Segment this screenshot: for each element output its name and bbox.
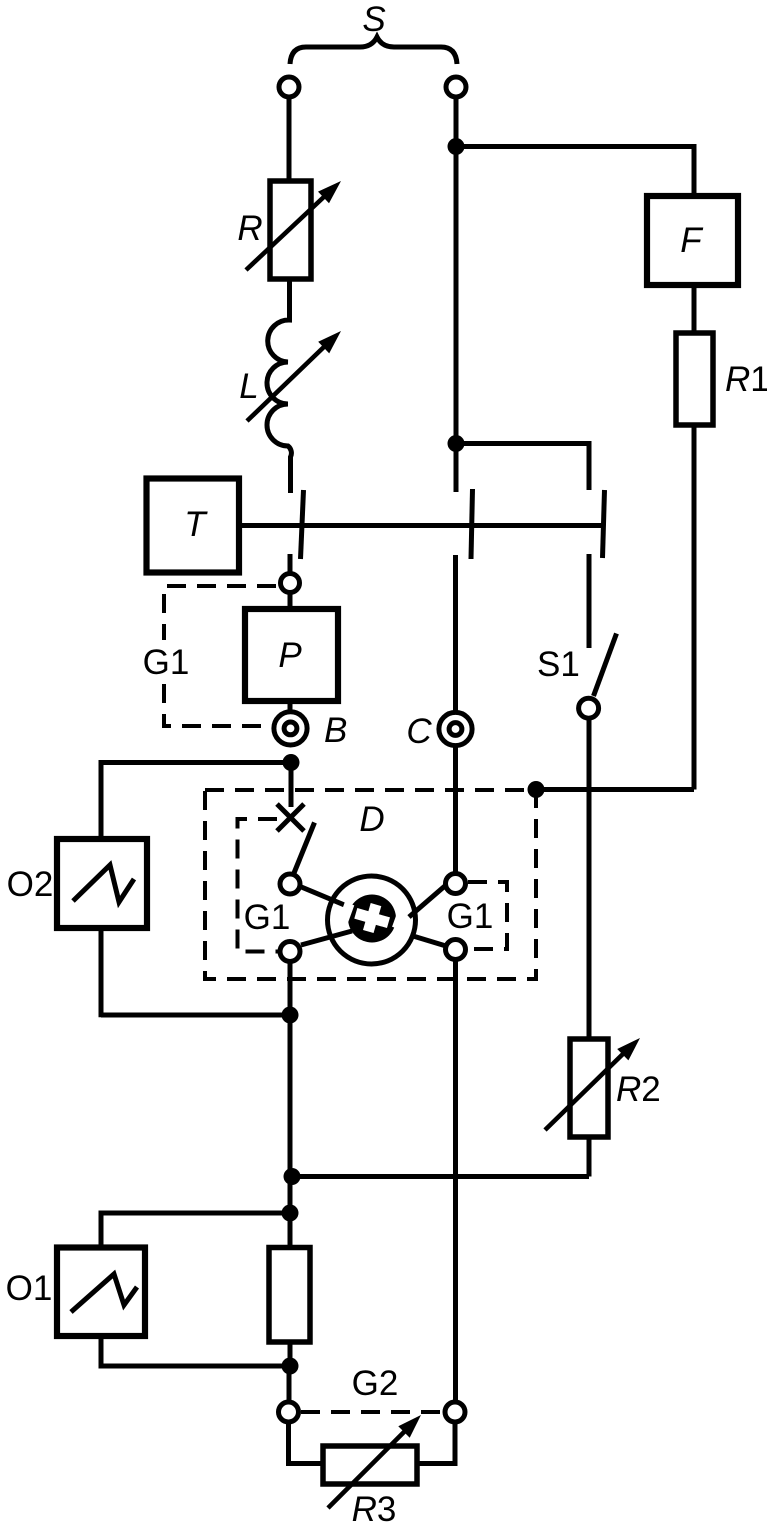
wire O2 bottom vertical bbox=[99, 928, 104, 1017]
inductor L bbox=[267, 315, 291, 493]
rotary bar bottom-left bbox=[301, 931, 352, 945]
sawtooth in O1 bbox=[71, 1274, 137, 1312]
junction dot top right branch bbox=[448, 138, 465, 155]
wire junction to G2 left terminal bbox=[287, 1366, 292, 1403]
junction dot O2 bottom bbox=[282, 1007, 299, 1024]
svg-text:O2: O2 bbox=[7, 865, 54, 904]
svg-text:R2: R2 bbox=[616, 1070, 661, 1109]
socket B outer bbox=[274, 712, 307, 745]
wire R1 down bbox=[692, 425, 697, 790]
junction dot B bbox=[283, 754, 300, 771]
rotary bar top-left bbox=[299, 886, 354, 909]
wire D bottom-right terminal down bbox=[453, 960, 458, 1403]
box T bbox=[147, 479, 240, 573]
wire G2 right down bbox=[417, 1423, 455, 1464]
svg-text:G1: G1 bbox=[143, 643, 190, 682]
wire F to R1 bbox=[692, 285, 697, 334]
wire G2 left down bbox=[289, 1423, 324, 1464]
svg-text:R3: R3 bbox=[352, 1490, 397, 1527]
svg-text:O1: O1 bbox=[6, 1269, 53, 1308]
wire left rail down bbox=[288, 1015, 293, 1248]
wire C to D terminal bbox=[453, 746, 458, 874]
wire O1 top horizontal bbox=[101, 1211, 290, 1216]
arrow of R bbox=[246, 194, 327, 270]
wire R1 to D corner bbox=[536, 787, 694, 792]
svg-text:R1: R1 bbox=[725, 360, 767, 399]
junction dot at D corner bbox=[528, 781, 545, 798]
terminal D bottom-right bbox=[446, 940, 466, 960]
svg-text:G2: G2 bbox=[352, 1364, 399, 1403]
terminal G2 right bbox=[445, 1402, 465, 1422]
oscilloscope O1 box bbox=[57, 1248, 145, 1337]
switch arm in D bbox=[294, 823, 315, 874]
svg-text:G1: G1 bbox=[447, 897, 494, 936]
svg-text:L: L bbox=[239, 367, 258, 406]
resistor R3 bbox=[323, 1446, 417, 1484]
enclosure D dashed box bbox=[205, 790, 536, 979]
socket C outer bbox=[439, 712, 472, 745]
wire right pole to S1 bbox=[587, 554, 592, 648]
terminal D bottom-left bbox=[280, 942, 300, 962]
terminal G2 left bbox=[279, 1402, 299, 1422]
wire D bottom-left terminal down bbox=[288, 961, 293, 1015]
wire bracket vertical bbox=[587, 441, 592, 490]
brace S bbox=[290, 37, 457, 64]
wire ballast to junction bbox=[288, 1342, 293, 1366]
wire to F branch horizontal bbox=[456, 144, 694, 149]
wire bracket horizontal bbox=[456, 441, 589, 446]
socket C inner bbox=[449, 723, 462, 736]
junction dot left rail bbox=[284, 1168, 301, 1185]
switch contact center pole bbox=[471, 489, 473, 559]
box P bbox=[245, 609, 338, 701]
arrow of L bbox=[247, 344, 327, 421]
junction dot above G2 bbox=[282, 1358, 299, 1375]
svg-text:T: T bbox=[184, 505, 208, 544]
svg-text:S1: S1 bbox=[537, 645, 580, 684]
wire R to L bbox=[287, 279, 292, 318]
resistor R bbox=[270, 181, 311, 279]
rotor disc bbox=[348, 895, 396, 943]
svg-text:C: C bbox=[406, 712, 432, 751]
terminal right pole of S bbox=[446, 77, 466, 97]
svg-text:D: D bbox=[359, 800, 384, 839]
wire P to B bbox=[288, 701, 293, 713]
ballast resistor bbox=[269, 1248, 310, 1343]
socket B inner bbox=[284, 722, 297, 735]
wire contact to terminal bbox=[288, 554, 293, 573]
svg-text:R: R bbox=[237, 209, 262, 248]
wire O2 top horizontal bbox=[101, 760, 291, 765]
svg-text:B: B bbox=[324, 711, 347, 750]
switch contact left pole bbox=[301, 490, 304, 559]
terminal D top-left bbox=[280, 874, 300, 894]
box F bbox=[647, 196, 738, 285]
wire F branch vertical bbox=[692, 144, 697, 197]
resistor R2 bbox=[570, 1039, 608, 1137]
svg-text:G1: G1 bbox=[244, 898, 291, 937]
separator G2 dashed bbox=[301, 1410, 442, 1414]
oscilloscope O2 box bbox=[57, 839, 147, 928]
wire right terminal down bbox=[454, 98, 459, 493]
arrow of R2 bbox=[545, 1051, 626, 1130]
enclosure G1 right inner dashed bbox=[468, 882, 507, 949]
rotary interrupter outer circle bbox=[328, 876, 416, 964]
wire left terminal to R bbox=[287, 98, 292, 183]
mechanical link from T bbox=[239, 523, 603, 528]
terminal D top-right bbox=[446, 874, 466, 894]
wire O1 bottom horizontal bbox=[101, 1364, 290, 1369]
switch contact right pole bbox=[603, 490, 605, 558]
junction dot switch bracket bbox=[448, 435, 465, 452]
svg-text:P: P bbox=[278, 636, 302, 675]
resistor R1 bbox=[676, 333, 713, 425]
terminal above P bbox=[281, 574, 300, 593]
sawtooth in O2 bbox=[73, 865, 134, 902]
wire O2 top vertical bbox=[99, 760, 104, 840]
svg-text:F: F bbox=[680, 221, 704, 260]
contact mark X bbox=[277, 804, 304, 831]
rotary bar bottom-right bbox=[413, 936, 446, 946]
wire B junction down to X contact bbox=[289, 763, 294, 808]
enclosure G1 outer dashed around P bbox=[164, 586, 276, 640]
rotary bar top-right bbox=[409, 885, 446, 917]
wire center pole below bbox=[453, 555, 458, 711]
arrow of R3 bbox=[328, 1429, 407, 1508]
wire S1 down to R2 bbox=[587, 718, 592, 1040]
wire O1 bottom vertical bbox=[99, 1336, 104, 1369]
junction dot O1 top bbox=[282, 1205, 299, 1222]
switch S1 arm bbox=[594, 634, 617, 697]
svg-text:S: S bbox=[362, 0, 385, 39]
terminal left pole of S bbox=[279, 77, 299, 97]
switch S1 pivot bbox=[579, 698, 599, 718]
enclosure G1 left inner dashed bbox=[238, 819, 280, 952]
wire O1 top vertical bbox=[99, 1211, 104, 1249]
wire R2 bottom horizontal bbox=[292, 1174, 589, 1179]
wire terminal to P bbox=[288, 593, 293, 610]
wire R2 down bbox=[587, 1137, 592, 1177]
wire O2 bottom horizontal bbox=[101, 1013, 290, 1018]
